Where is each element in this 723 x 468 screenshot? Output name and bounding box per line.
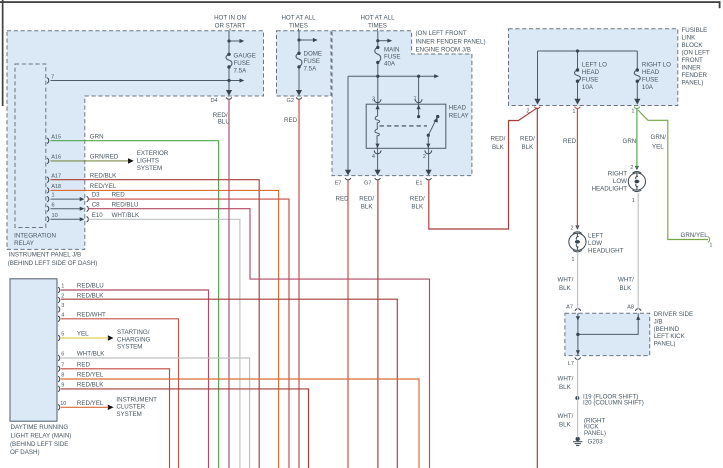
svg-text:RED/: RED/ — [520, 135, 535, 142]
svg-text:LOW: LOW — [613, 178, 627, 185]
svg-text:FUSE: FUSE — [384, 54, 401, 61]
svg-text:HOT IN ON: HOT IN ON — [214, 15, 246, 22]
svg-text:RIGHT LO: RIGHT LO — [642, 62, 671, 69]
svg-text:4: 4 — [61, 313, 64, 319]
svg-text:BLK: BLK — [492, 144, 505, 151]
svg-text:LIGHT RELAY (MAIN): LIGHT RELAY (MAIN) — [11, 432, 72, 439]
svg-text:(BEHIND LEFT SIDE OF DASH): (BEHIND LEFT SIDE OF DASH) — [8, 260, 98, 267]
svg-text:(BEHIND LEFT SIDE: (BEHIND LEFT SIDE — [10, 441, 68, 448]
svg-text:MAIN: MAIN — [384, 47, 399, 54]
svg-text:FUSE: FUSE — [304, 58, 321, 65]
svg-text:WHT/: WHT/ — [558, 413, 574, 420]
svg-text:INSTRUMENT PANEL J/B: INSTRUMENT PANEL J/B — [9, 252, 81, 259]
svg-text:C8: C8 — [92, 201, 100, 208]
svg-text:10A: 10A — [582, 84, 594, 91]
svg-text:PANEL): PANEL) — [654, 340, 676, 347]
svg-text:G7: G7 — [364, 181, 371, 187]
svg-text:SYSTEM: SYSTEM — [116, 411, 141, 418]
svg-text:TIMES: TIMES — [368, 23, 387, 30]
svg-text:CLUSTER: CLUSTER — [116, 404, 145, 411]
svg-text:BLK: BLK — [361, 204, 374, 211]
svg-text:FRONT: FRONT — [682, 57, 704, 64]
svg-text:A15: A15 — [51, 134, 61, 140]
svg-text:RED: RED — [563, 138, 577, 145]
svg-text:HOT AT ALL: HOT AT ALL — [281, 15, 316, 22]
svg-text:BLOCK: BLOCK — [682, 42, 704, 49]
svg-text:YEL: YEL — [652, 144, 664, 151]
svg-text:LEFT KICK: LEFT KICK — [654, 333, 686, 340]
svg-text:D4: D4 — [211, 98, 218, 104]
svg-text:FUSIBLE: FUSIBLE — [682, 27, 708, 34]
svg-text:5: 5 — [61, 332, 64, 338]
svg-text:FUSE: FUSE — [642, 77, 659, 84]
svg-text:WHT/: WHT/ — [558, 375, 574, 382]
svg-text:LEFT LO: LEFT LO — [582, 62, 607, 69]
svg-text:7: 7 — [413, 97, 416, 103]
svg-text:RELAY: RELAY — [449, 113, 469, 120]
svg-text:WHT/: WHT/ — [618, 277, 634, 284]
svg-text:LIGHTS: LIGHTS — [137, 158, 159, 165]
svg-text:INSTRUMENT: INSTRUMENT — [116, 396, 157, 403]
svg-text:RED/YEL: RED/YEL — [77, 400, 104, 407]
svg-text:1: 1 — [632, 198, 635, 204]
svg-text:RIGHT: RIGHT — [608, 171, 627, 178]
svg-text:A7: A7 — [566, 305, 573, 311]
svg-text:OF DASH): OF DASH) — [10, 449, 40, 456]
svg-text:E10: E10 — [92, 212, 104, 219]
svg-text:RED/: RED/ — [491, 135, 506, 142]
svg-text:DRIVER SIDE: DRIVER SIDE — [654, 311, 694, 318]
svg-text:2: 2 — [630, 165, 633, 171]
svg-text:BLK: BLK — [411, 204, 424, 211]
svg-text:RED/BLK: RED/BLK — [77, 382, 104, 389]
svg-text:PANEL): PANEL) — [682, 80, 704, 87]
svg-text:SYSTEM: SYSTEM — [117, 343, 142, 350]
svg-text:INTEGRATION: INTEGRATION — [14, 233, 56, 240]
svg-text:GRN/RED: GRN/RED — [90, 154, 119, 161]
svg-text:INNER: INNER — [682, 65, 702, 72]
svg-text:D3: D3 — [92, 192, 100, 199]
svg-text:RED: RED — [77, 362, 91, 369]
svg-text:LEFT: LEFT — [588, 233, 603, 240]
svg-text:STARTING/: STARTING/ — [117, 329, 150, 336]
svg-text:GRN: GRN — [623, 138, 637, 145]
svg-text:EXTERIOR: EXTERIOR — [137, 150, 169, 157]
svg-text:GAUGE: GAUGE — [234, 52, 256, 59]
svg-text:FUSE: FUSE — [234, 60, 251, 67]
svg-text:RED/BLK: RED/BLK — [77, 293, 104, 300]
svg-text:E7: E7 — [335, 181, 342, 187]
svg-text:FENDER: FENDER — [682, 72, 708, 79]
svg-text:BLK: BLK — [522, 144, 535, 151]
svg-text:4: 4 — [372, 154, 375, 160]
svg-text:2: 2 — [61, 293, 64, 299]
svg-text:RED: RED — [284, 117, 298, 124]
svg-text:A17: A17 — [51, 173, 61, 179]
svg-text:RED/YEL: RED/YEL — [77, 372, 104, 379]
svg-text:G203: G203 — [588, 439, 604, 446]
svg-text:ENGINE ROOM J/B: ENGINE ROOM J/B — [416, 47, 471, 54]
svg-text:L7: L7 — [568, 361, 574, 367]
svg-text:WHT/BLK: WHT/BLK — [112, 212, 140, 219]
svg-text:10: 10 — [52, 213, 58, 219]
svg-text:RED: RED — [112, 192, 126, 199]
svg-text:2: 2 — [423, 154, 426, 160]
svg-text:8: 8 — [61, 373, 64, 379]
svg-text:7.5A: 7.5A — [234, 67, 248, 74]
svg-text:GRN/YEL: GRN/YEL — [681, 232, 709, 239]
svg-text:DOME: DOME — [304, 51, 323, 58]
svg-text:G2: G2 — [287, 98, 294, 104]
svg-text:A18: A18 — [51, 184, 61, 190]
svg-text:WHT/: WHT/ — [558, 277, 574, 284]
svg-text:3: 3 — [61, 303, 64, 309]
svg-text:J/B: J/B — [654, 319, 663, 326]
svg-text:BLK: BLK — [620, 285, 633, 292]
svg-text:9: 9 — [61, 383, 64, 389]
svg-text:1: 1 — [572, 109, 575, 115]
svg-text:3: 3 — [372, 97, 375, 103]
svg-text:1: 1 — [631, 109, 634, 115]
svg-text:7.5A: 7.5A — [304, 66, 318, 73]
svg-text:RED/BLU: RED/BLU — [112, 201, 139, 208]
svg-text:1: 1 — [709, 242, 712, 248]
svg-text:RED/: RED/ — [359, 195, 374, 202]
svg-text:YEL: YEL — [77, 331, 89, 338]
svg-text:(BEHIND: (BEHIND — [654, 326, 680, 333]
svg-text:GRN/: GRN/ — [651, 134, 667, 141]
svg-text:BLK: BLK — [559, 384, 572, 391]
svg-text:A16: A16 — [51, 155, 61, 161]
svg-text:7: 7 — [61, 363, 64, 369]
svg-text:(ON LEFT: (ON LEFT — [682, 50, 710, 57]
svg-text:GRN: GRN — [90, 133, 104, 140]
svg-text:6: 6 — [52, 202, 55, 208]
svg-text:HEAD: HEAD — [449, 105, 467, 112]
svg-text:I20 (COLUMN SHIFT): I20 (COLUMN SHIFT) — [583, 400, 644, 407]
svg-text:INNER FENDER PANEL): INNER FENDER PANEL) — [416, 38, 486, 45]
svg-text:LOW: LOW — [588, 240, 602, 247]
svg-text:HOT AT ALL: HOT AT ALL — [360, 15, 395, 22]
svg-text:DAYTIME RUNNING: DAYTIME RUNNING — [11, 424, 69, 431]
svg-text:RED/BLU: RED/BLU — [77, 283, 104, 290]
svg-text:40A: 40A — [384, 61, 396, 68]
svg-text:RED/BLK: RED/BLK — [90, 172, 117, 179]
svg-text:HEADLIGHT: HEADLIGHT — [592, 186, 628, 193]
svg-text:HEAD: HEAD — [642, 69, 660, 76]
svg-text:RELAY: RELAY — [14, 240, 34, 247]
svg-text:WHT/BLK: WHT/BLK — [77, 351, 105, 358]
svg-text:(ON LEFT FRONT: (ON LEFT FRONT — [416, 30, 467, 37]
svg-text:1: 1 — [52, 193, 55, 199]
svg-text:RED: RED — [336, 195, 350, 202]
svg-text:HEAD: HEAD — [582, 69, 600, 76]
svg-text:2: 2 — [570, 226, 573, 232]
svg-text:10: 10 — [60, 401, 66, 407]
svg-text:BLK: BLK — [559, 422, 572, 429]
svg-text:6: 6 — [61, 352, 64, 358]
svg-text:10A: 10A — [642, 84, 654, 91]
svg-text:SYSTEM: SYSTEM — [137, 165, 162, 172]
svg-text:FUSE: FUSE — [582, 77, 599, 84]
svg-text:7: 7 — [51, 74, 54, 80]
svg-text:PANEL): PANEL) — [584, 430, 606, 437]
svg-text:E1: E1 — [416, 181, 423, 187]
svg-text:RED/: RED/ — [410, 195, 425, 202]
svg-text:RED/WHT: RED/WHT — [77, 312, 106, 319]
svg-text:A8: A8 — [627, 305, 634, 311]
svg-text:LINK: LINK — [682, 35, 697, 42]
svg-text:RED/YEL: RED/YEL — [90, 183, 117, 190]
svg-text:BLU: BLU — [218, 118, 230, 125]
svg-text:BLK: BLK — [559, 285, 572, 292]
svg-text:1: 1 — [61, 283, 64, 289]
svg-text:TIMES: TIMES — [289, 23, 308, 30]
svg-text:1: 1 — [571, 257, 574, 263]
svg-text:2: 2 — [526, 108, 529, 114]
svg-text:HEADLIGHT: HEADLIGHT — [588, 248, 624, 255]
svg-text:OR START: OR START — [215, 23, 246, 30]
